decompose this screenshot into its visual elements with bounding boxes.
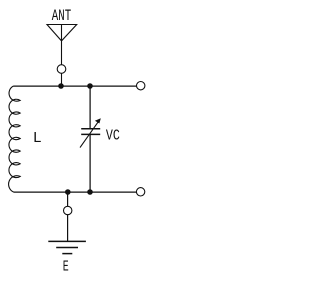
svg-text:VC: VC: [106, 127, 120, 144]
junction (antenna / top wire): [58, 83, 64, 89]
wire VC bottom lead: [89, 134, 91, 192]
terminal top right: [137, 82, 145, 90]
capacitor VC arrow: [80, 120, 99, 147]
wire antenna lead: [61, 73, 63, 86]
terminal (antenna): [57, 65, 66, 74]
terminal bottom right: [136, 188, 144, 196]
svg-text:ANT: ANT: [52, 7, 71, 25]
ground E bar 1: [48, 240, 86, 242]
wire top: [14, 85, 137, 87]
capacitor VC plate bottom: [81, 133, 100, 135]
wire ground lead lower: [67, 215, 69, 242]
antenna ANT: [47, 25, 77, 65]
capacitor VC plate top: [81, 128, 100, 130]
svg-text:E: E: [63, 259, 69, 276]
junction (ground / bottom wire): [65, 189, 71, 195]
wire ground lead upper: [67, 192, 69, 206]
junction (VC bottom): [87, 189, 93, 195]
wire bottom: [14, 191, 137, 193]
wire VC top lead: [89, 86, 91, 128]
ground E bar 3: [62, 253, 72, 255]
terminal (earth): [63, 206, 71, 214]
ground E bar 2: [56, 247, 78, 249]
junction (VC top): [87, 83, 93, 89]
svg-text:L: L: [33, 130, 42, 147]
inductor L: [9, 86, 21, 192]
